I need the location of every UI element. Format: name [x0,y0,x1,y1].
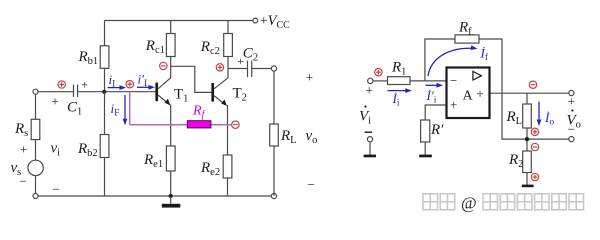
wire R1 to amp [410,80,447,82]
ground left circuit [162,194,181,208]
wire C2 to output [252,68,272,70]
node input terminal [33,89,38,94]
resistor Rc2 [224,34,233,57]
wire feedback up [425,39,455,81]
polarity circled-plus above node [531,128,538,135]
wire T1 collector to T2 base [171,66,212,92]
polarity circled-minus below node [531,143,538,150]
wire amp output [490,92,569,94]
resistor Rf right [455,35,479,43]
node input terminal right [368,78,373,83]
wire amp plus input [425,105,446,120]
wire T2 collector [214,78,228,89]
svg-text:+: + [306,70,313,85]
ground under R-prime [419,155,432,158]
polarity circled-plus at input right [375,69,382,76]
wire Rb1 branch [104,21,106,93]
svg-text:+: + [51,94,58,109]
node bottom-right terminal [271,193,276,198]
wire R-prime to ground [424,142,426,155]
resistor R-prime [421,120,430,142]
ground under R2 [522,185,534,188]
resistor Rb1 [100,46,109,69]
node output terminal [271,66,276,71]
wire bottom rail [36,195,275,197]
wire Re2 to ground rail [227,178,229,196]
svg-text:+: + [568,94,575,109]
node input junction [102,90,106,94]
watermark zhihu [423,194,455,210]
resistor Rf highlighted [187,121,211,128]
resistor Rc1 [166,34,175,57]
polarity circled-plus at T2 collector [216,64,223,71]
wire Re1 to ground rail [170,171,172,196]
wire input to C1 [38,91,74,93]
polarity circled-minus at T2 emitter [232,121,239,128]
wire Rb2 branch [104,92,106,196]
wire Rc2 branch [227,21,229,79]
resistor RL [270,124,279,146]
polarity circled-plus at R2 bottom [531,173,538,180]
capacitor C2 [247,61,249,78]
resistor Rb2 [100,135,109,158]
node RL-R2 junction [525,137,529,141]
capacitor C1 [73,85,75,98]
polarity circled-plus at T1 base [126,81,133,88]
polarity circled-minus at output right [529,81,536,88]
node output terminal bottom [569,137,574,142]
ground under Vi [364,137,376,158]
wire C2 branch [228,68,248,70]
wire Rs branch [35,94,37,196]
svg-text:R′: R′ [430,122,444,138]
wire Rc1 branch [170,21,172,79]
node bottom-left terminal [33,194,38,199]
wire T2 emitter to Re2 [227,105,229,155]
current arrow Io [537,102,542,126]
current arrow Ii [388,88,412,93]
current arrow iF [123,95,128,125]
op-amp A block [447,68,490,119]
resistor R2 [523,151,532,173]
wire Vi terminal stem [369,142,371,155]
polarity circled-minus at T1 collector [160,62,167,69]
resistor Re2 [223,155,232,178]
node output terminal top [569,90,574,95]
label minus Vi [365,131,372,133]
svg-text:+: + [237,54,244,68]
svg-text:−: − [19,173,26,188]
svg-text:+: + [476,86,483,101]
transistor T1 [155,83,170,106]
source vs [28,160,43,175]
current arrow iI-prime [137,85,155,90]
wire T1 emitter [158,95,170,105]
svg-text:+: + [20,141,27,156]
wire T1 collector [158,78,171,89]
resistor RL right [523,104,532,128]
transistor T2 [211,83,227,106]
resistor Re1 [166,146,175,171]
wire RL branch right [526,93,528,104]
wire C1 to T1 base [78,91,156,93]
wire feedback pink [130,92,232,124]
svg-text:−: − [52,182,59,197]
wire VCC top rail [105,20,253,22]
wire R2 to ground [526,173,528,185]
polarity circled-plus at C1 [58,81,65,88]
svg-text:@: @ [461,194,477,213]
wire Rf to output column [479,39,526,139]
svg-text:A: A [463,89,474,104]
wire node to output terminal bottom [527,138,569,140]
node VCC terminal [253,18,258,23]
wire T2 emitter [214,96,226,106]
current arrow Ii-prime [426,83,444,88]
wire input to R1 [373,80,388,82]
resistor R1 [388,77,411,85]
svg-text:+: + [450,97,457,112]
svg-text:−: − [307,177,314,192]
svg-text:−: − [450,73,457,88]
current arrow If curved [428,45,478,76]
resistor Rs [31,119,40,139]
current arrow iI [108,85,127,90]
wire T1 emitter to Re1 [170,104,172,146]
svg-text:−: − [568,122,575,137]
wire RL branch [273,71,275,196]
svg-text:+: + [81,78,88,92]
svg-text:+: + [366,83,373,98]
